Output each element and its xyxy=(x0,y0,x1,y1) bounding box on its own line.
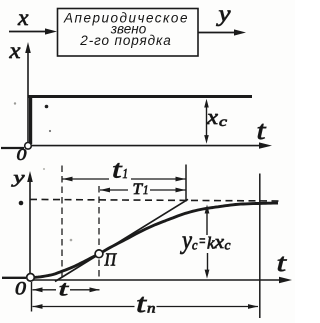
svg-text:c: c xyxy=(219,115,228,130)
svg-text:1: 1 xyxy=(143,183,149,197)
svg-text:y: y xyxy=(179,226,192,255)
svg-text:t: t xyxy=(277,248,288,277)
svg-text:t: t xyxy=(59,276,70,300)
svg-text:y: y xyxy=(216,1,231,27)
svg-text:x: x xyxy=(213,232,224,253)
svg-text:t: t xyxy=(257,115,267,145)
svg-text:c: c xyxy=(192,238,198,253)
svg-text:2-го порядка: 2-го порядка xyxy=(79,33,171,48)
svg-text:x: x xyxy=(17,5,29,31)
svg-text:y: y xyxy=(10,168,25,187)
svg-text:t: t xyxy=(136,288,147,318)
svg-text:x: x xyxy=(8,38,21,64)
svg-text:1: 1 xyxy=(123,167,129,182)
svg-text:п: п xyxy=(147,302,156,317)
svg-text:0: 0 xyxy=(17,145,28,164)
svg-text:T: T xyxy=(133,181,144,198)
svg-text:t: t xyxy=(112,157,123,184)
svg-text:x: x xyxy=(206,104,218,129)
svg-text:П: П xyxy=(104,250,118,270)
svg-text:=: = xyxy=(199,232,207,251)
svg-text:0: 0 xyxy=(15,280,27,300)
svg-text:c: c xyxy=(225,238,231,253)
